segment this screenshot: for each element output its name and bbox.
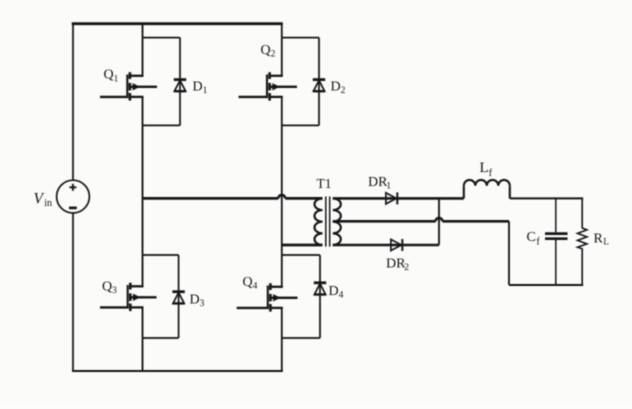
wire: DR junction vertical (cathodes)	[438, 198, 440, 245]
label Q3	[102, 280, 117, 297]
svg-text:1: 1	[386, 182, 391, 192]
svg-text:1: 1	[203, 86, 208, 96]
label Cf	[527, 230, 541, 248]
wire: Q2 drain leg from top rail	[281, 24, 283, 76]
svg-text:in: in	[44, 198, 52, 209]
wire: D4 branch vertical	[319, 255, 321, 338]
svg-text:Q: Q	[104, 68, 114, 83]
diode DR1	[386, 192, 397, 204]
svg-text:R: R	[594, 232, 604, 247]
label T1	[317, 176, 332, 191]
svg-text:4: 4	[253, 282, 258, 292]
svg-text:DR: DR	[368, 175, 388, 190]
wire: primary bottom to leg B	[282, 244, 323, 247]
wire: left leg upper (Vin + to rail)	[72, 24, 74, 181]
wire: bottom output rail	[509, 284, 583, 286]
svg-text:C: C	[527, 230, 536, 245]
wire: Q3 source leg to bottom rail	[142, 307, 144, 371]
wire: Q4/D4 bottom bracket	[282, 337, 320, 339]
wire: Q2/D2 bottom bracket	[282, 124, 319, 126]
label Q4	[243, 275, 258, 292]
diode D2 (body diode of Q2)	[313, 80, 325, 92]
svg-text:3: 3	[112, 286, 117, 296]
label RL	[594, 232, 609, 247]
inductor Lf	[464, 180, 510, 198]
svg-text:L: L	[603, 237, 609, 247]
wire: D1 branch vertical	[179, 38, 181, 126]
label Q2	[261, 43, 276, 60]
wire: Q3/D3 top bracket	[143, 254, 179, 256]
svg-text:2: 2	[341, 86, 346, 96]
transistor Q3 (MOSFET)	[100, 283, 157, 311]
wire: top positive rail	[72, 22, 283, 25]
diode D3 (body diode of Q3)	[172, 292, 184, 304]
label DR2	[386, 256, 409, 273]
wire: bottom negative rail	[72, 370, 283, 372]
wire: D2 branch vertical	[318, 38, 320, 126]
svg-text:Q: Q	[261, 43, 271, 58]
svg-text:4: 4	[339, 290, 344, 300]
svg-text:Q: Q	[243, 275, 253, 290]
svg-text:D: D	[331, 79, 341, 94]
svg-text:2: 2	[404, 263, 409, 273]
wire: Q1/D1 top bracket	[143, 37, 181, 39]
capacitor Cf	[545, 198, 568, 285]
transistor Q4 (MOSFET)	[237, 283, 298, 311]
wire: left leg lower (Vin - to bottom rail)	[72, 213, 74, 371]
svg-text:1: 1	[114, 74, 119, 84]
wire: secondary top to DR1 and on to Lf	[333, 197, 464, 200]
wire: Q2/D2 top bracket	[282, 37, 319, 39]
wire: Lf output to RL top	[510, 197, 583, 199]
svg-text:3: 3	[200, 299, 205, 309]
wire: Q1 drain leg from top rail	[142, 24, 144, 76]
transistor Q1 (MOSFET)	[100, 72, 157, 100]
resistor RL (load)	[578, 198, 587, 285]
transformer T1 secondary winding (center-tapped)	[333, 198, 341, 245]
svg-text:D: D	[329, 284, 339, 299]
label D3	[190, 292, 205, 309]
wire: D3 branch vertical	[178, 255, 180, 338]
transformer T1 primary winding	[314, 198, 322, 245]
label D1	[193, 79, 208, 96]
svg-text:T1: T1	[317, 176, 332, 191]
diode D1 (body diode of Q1)	[174, 80, 186, 92]
wire: secondary bottom to DR2 to junction	[333, 244, 439, 247]
label Q1	[104, 68, 119, 85]
wire: leg A mid (Q1 source to Q3 drain, node to primary)	[142, 97, 144, 287]
svg-text:D: D	[193, 79, 203, 94]
svg-text:2: 2	[271, 49, 276, 59]
label D2	[331, 79, 346, 96]
svg-text:DR: DR	[386, 256, 406, 271]
transformer T1 core	[326, 197, 330, 247]
diode DR2	[391, 239, 402, 251]
svg-text:L: L	[480, 160, 489, 176]
label Lf	[480, 160, 493, 179]
svg-text:V: V	[34, 190, 45, 207]
wire: Q4/D4 top bracket	[282, 254, 320, 256]
wire: node A to primary top (crossover hump at leg B)	[143, 195, 323, 198]
wire: Q1/D1 bottom bracket	[143, 124, 181, 126]
label DR1	[368, 175, 391, 192]
transistor Q2 (MOSFET)	[239, 72, 298, 100]
svg-text:Q: Q	[102, 280, 112, 295]
wire: leg B mid (Q2 source to Q4 drain, node to primary return)	[281, 97, 283, 288]
source V_in (DC input)	[57, 180, 90, 213]
wire: center tap drop to bottom output rail	[508, 221, 510, 285]
label D4	[329, 284, 344, 301]
label V_in	[34, 190, 52, 209]
diode D4 (body diode of Q4)	[314, 283, 326, 295]
wire: Q4 source leg to bottom rail	[281, 308, 283, 371]
wire: center tap to output return (hump over junction vertical)	[333, 218, 509, 221]
wire: Q3/D3 bottom bracket	[143, 337, 179, 339]
svg-text:D: D	[190, 292, 200, 307]
